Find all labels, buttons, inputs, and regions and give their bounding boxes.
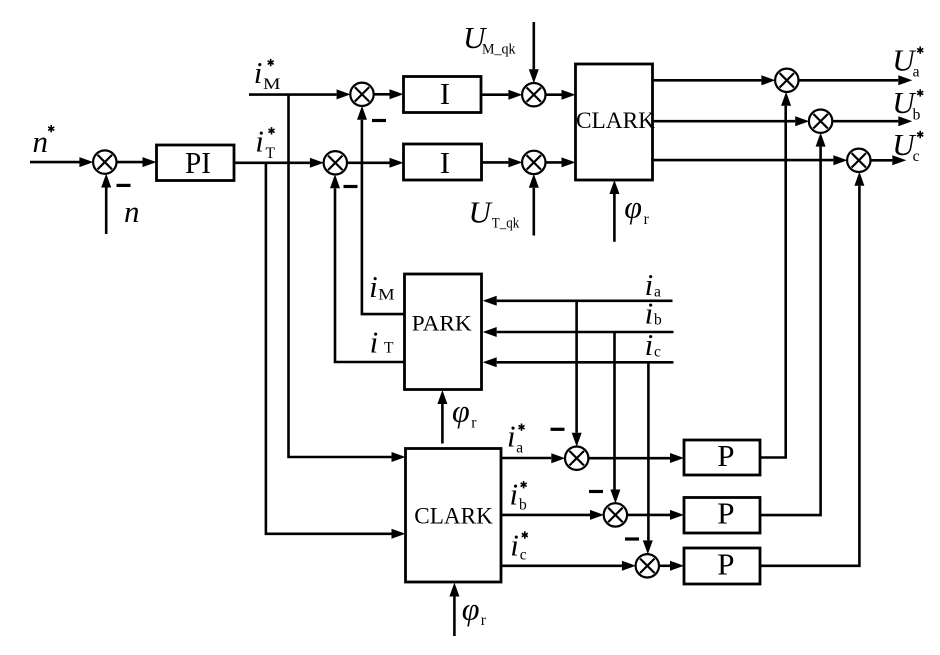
svg-text:U: U — [469, 194, 494, 229]
wire branch i_M-star down to CLARK2 input1 — [289, 95, 392, 457]
svg-text:i: i — [510, 476, 519, 511]
wire P3 up into O3 — [760, 186, 859, 566]
wire i_c into PARK — [497, 361, 674, 364]
svg-text:φ: φ — [462, 590, 480, 626]
multiplier B — [522, 83, 545, 106]
wire U_M_qk down into B — [532, 22, 535, 69]
wire CLARK2 out2 to c2 — [501, 514, 590, 517]
svg-text:P: P — [717, 547, 734, 582]
minus at c2 — [589, 490, 603, 493]
summing junction S1 — [93, 150, 116, 173]
wire n-star input — [30, 161, 80, 164]
svg-text:r: r — [481, 612, 487, 629]
wire A to I1 — [373, 93, 389, 96]
wire c3 to P3 — [659, 564, 670, 567]
svg-text:c: c — [654, 343, 661, 360]
wire P1 up into O1 — [760, 106, 786, 458]
wire S1 to PI — [116, 161, 142, 164]
block CLARK1 — [576, 64, 653, 180]
block I1 — [404, 77, 482, 113]
svg-text:a: a — [654, 284, 661, 301]
multiplier A — [350, 83, 373, 106]
wire B to CLARK1 — [545, 93, 561, 96]
minus at c1 — [551, 428, 565, 431]
wire phi_r up into CLARK2 — [453, 597, 456, 637]
svg-text:c: c — [520, 547, 527, 564]
svg-text:a: a — [913, 63, 920, 80]
wire phi_r up into CLARK1 — [613, 194, 616, 242]
svg-text:r: r — [471, 415, 477, 432]
svg-text:PARK: PARK — [412, 311, 473, 336]
svg-text:i: i — [645, 327, 654, 362]
wire P2 up into O2 — [760, 147, 821, 515]
wire I1 to multiplier B — [481, 93, 508, 96]
wire phi_r up into PARK — [441, 404, 444, 444]
wire C to I2 — [347, 162, 390, 165]
svg-text:r: r — [644, 211, 650, 228]
wire O3 output — [870, 159, 892, 162]
svg-text:i: i — [507, 419, 516, 454]
svg-text:φ: φ — [624, 189, 642, 225]
svg-text:a: a — [516, 440, 523, 457]
minus at A — [372, 119, 386, 122]
wire i_M-star to multiplier A — [249, 93, 337, 96]
wire D to CLARK1 — [545, 161, 561, 164]
wire i_a branch down into c1 — [575, 301, 578, 433]
multiplier c3 — [636, 554, 659, 577]
block I2 — [404, 144, 482, 180]
svg-text:c: c — [913, 148, 920, 165]
svg-text:φ: φ — [452, 392, 470, 428]
svg-text:b: b — [519, 497, 527, 514]
svg-text:CLARK: CLARK — [576, 108, 655, 133]
wire O2 output — [832, 120, 898, 123]
multiplier O2 — [809, 110, 832, 133]
multiplier c1 — [565, 447, 588, 470]
wire CLARK2 out3 to c3 — [501, 564, 622, 567]
multiplier O3 — [847, 149, 870, 172]
block P2 — [684, 498, 760, 534]
svg-text:b: b — [913, 106, 921, 123]
svg-text:P: P — [717, 438, 734, 473]
wire i_b into PARK — [497, 331, 674, 334]
multiplier c2 — [604, 503, 627, 526]
svg-text:T_qk: T_qk — [492, 215, 520, 231]
wire PI to multiplier C — [234, 162, 310, 165]
wire c1 to P1 — [588, 457, 670, 460]
svg-text:M: M — [378, 286, 395, 303]
block PI — [157, 145, 235, 181]
multiplier C — [324, 151, 347, 174]
wire U_T_qk up into D — [532, 188, 535, 236]
wire O1 output — [798, 79, 898, 82]
svg-text:n: n — [33, 124, 49, 159]
wire i_c branch down into c3 — [647, 362, 650, 540]
block PARK — [405, 274, 482, 390]
svg-text:i: i — [254, 55, 263, 90]
svg-text:i: i — [255, 124, 264, 159]
wire i_T feedback up into C — [335, 188, 405, 362]
svg-text:i: i — [510, 527, 519, 562]
svg-text:i: i — [645, 296, 654, 331]
wire CLARK1 out2 to O2 — [653, 120, 796, 123]
svg-text:CLARK: CLARK — [414, 504, 493, 529]
wire i_a into PARK — [497, 299, 673, 302]
wire CLARK1 out3 to O3 — [653, 159, 834, 162]
block P3 — [684, 548, 760, 584]
svg-text:i: i — [370, 324, 379, 359]
svg-text:T: T — [266, 145, 276, 162]
svg-text:n: n — [124, 194, 140, 229]
minus at C — [344, 185, 358, 188]
block P1 — [684, 440, 760, 475]
svg-text:T: T — [384, 340, 394, 357]
svg-text:P: P — [717, 496, 734, 531]
multiplier O1 — [775, 69, 798, 92]
svg-text:I: I — [440, 76, 450, 111]
svg-text:I: I — [440, 145, 450, 180]
wire c2 to P2 — [627, 514, 670, 517]
wire i_b branch down into c2 — [613, 332, 616, 490]
svg-text:PI: PI — [185, 145, 211, 180]
minus at S1 — [117, 184, 131, 187]
wire I2 to multiplier D — [482, 161, 509, 164]
wire i_M feedback up into A — [362, 120, 405, 314]
wire n feedback — [105, 188, 108, 235]
multiplier D — [522, 151, 545, 174]
svg-text:M: M — [263, 76, 281, 93]
wire CLARK2 out1 to c1 — [501, 457, 551, 460]
block CLARK2 — [406, 449, 502, 583]
svg-text:b: b — [654, 312, 662, 329]
wire branch i_T-star down to CLARK2 input2 — [266, 163, 392, 534]
minus at c3 — [625, 537, 639, 540]
svg-text:i: i — [369, 269, 378, 304]
wire CLARK1 out1 to O1 — [653, 79, 762, 82]
svg-text:M_qk: M_qk — [482, 42, 516, 58]
